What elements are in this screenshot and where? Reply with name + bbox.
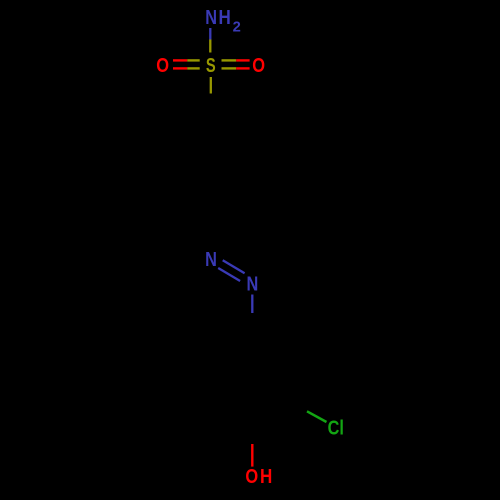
hydroxyl OH label — [245, 466, 272, 488]
svg-text:O: O — [252, 55, 265, 77]
wire N2-C(ring) bond (N half) — [251, 295, 253, 314]
svg-text:S: S — [206, 55, 216, 77]
wire S=O right double bond top (S half) — [222, 59, 237, 61]
svg-text:2: 2 — [233, 18, 241, 35]
wire N=N double bond lower line — [218, 268, 240, 281]
wire S=O left double bond top (S half) — [187, 59, 199, 61]
svg-text:O: O — [245, 466, 258, 488]
wire S=O right double bond top (O half) — [236, 59, 249, 61]
wire S=O right double bond bottom (S half) — [222, 67, 237, 69]
svg-text:N: N — [247, 273, 259, 295]
wire N-S bond (S half) — [209, 40, 211, 53]
wire S=O left double bond bottom (S half) — [187, 67, 199, 69]
wire C-O(H) bond (O half) — [251, 444, 253, 467]
svg-text:N: N — [205, 249, 217, 271]
svg-text:O: O — [156, 55, 169, 77]
wire S=O left double bond bottom (O half) — [173, 67, 187, 69]
svg-text:Cl: Cl — [328, 418, 344, 440]
wire S=O right double bond bottom (O half) — [236, 67, 249, 69]
svg-text:H: H — [260, 466, 272, 488]
wire N-S bond (N half) — [209, 28, 211, 40]
wire S-C(ring) bond (S half) — [210, 77, 212, 94]
wire C-Cl bond (Cl half) — [307, 411, 327, 422]
wire S=O left double bond top (O half) — [173, 59, 187, 61]
svg-text:H: H — [219, 7, 231, 29]
svg-text:N: N — [205, 7, 217, 29]
amine nitrogen label NH2 — [205, 7, 241, 35]
wire N=N double bond upper line — [223, 260, 245, 273]
